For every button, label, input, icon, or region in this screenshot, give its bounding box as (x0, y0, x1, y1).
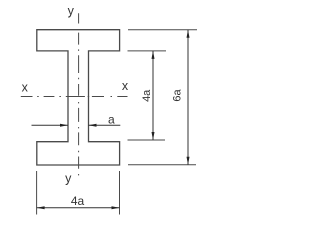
dimension 4a (bottom): left arrowhead (37, 206, 45, 209)
dimension a: right arrowhead (89, 124, 97, 127)
dimension 4a (right, vertical): dimension line (152, 51, 154, 140)
dimension 6a: dimension line (187, 30, 189, 165)
svg-text:4a: 4a (71, 194, 85, 208)
dimension a: left leader line (32, 124, 69, 126)
dimension 4a (right, vertical): bottom extension line (128, 139, 166, 141)
dimension 4a (bottom, horizontal): left extension line (36, 171, 38, 215)
svg-text:y: y (65, 172, 72, 186)
dimension 4a (bottom): dimension line (37, 207, 120, 209)
svg-text:a: a (108, 113, 115, 127)
dimension 4a: bottom arrowhead (152, 132, 155, 140)
svg-text:x: x (122, 79, 129, 93)
centerline x-x (horizontal dash-dot axis) (21, 96, 128, 98)
dimension 6a: top arrowhead (187, 30, 190, 38)
dimension 4a (right, vertical): top extension line (128, 50, 167, 52)
dimension a: left arrowhead (60, 124, 68, 127)
svg-text:4a: 4a (141, 89, 153, 102)
svg-text:y: y (68, 4, 75, 18)
svg-text:6a: 6a (172, 89, 184, 102)
dimension 4a: top arrowhead (152, 51, 155, 59)
svg-text:x: x (22, 81, 29, 95)
dimension 4a (bottom, horizontal): right extension line (119, 171, 121, 215)
dimension a: right leader line (89, 124, 121, 126)
dimension 6a (far right, vertical): bottom extension line (128, 164, 196, 166)
dimension 6a (far right, vertical): top extension line (128, 29, 197, 31)
centerline y-y (vertical dash-dot axis) (78, 13, 80, 175)
I-beam cross-section outline (37, 30, 120, 165)
dimension 6a: bottom arrowhead (187, 157, 190, 165)
dimension 4a (bottom): right arrowhead (112, 206, 120, 209)
